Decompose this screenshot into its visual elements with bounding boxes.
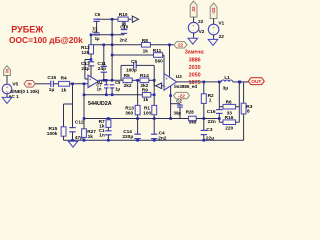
resistor R27: [82, 129, 87, 138]
wire In tag to C15: [35, 83, 51, 85]
source V1: [208, 24, 219, 35]
svg-text:1n: 1n: [97, 86, 102, 91]
svg-text:V5: V5: [12, 82, 18, 88]
ground symbol on rail: [68, 141, 78, 147]
wire R6 left column: [218, 82, 220, 110]
svg-text:360: 360: [125, 110, 133, 116]
svg-text:РУБЕЖ: РУБЕЖ: [11, 24, 44, 34]
wire C15 to R4: [53, 83, 58, 85]
resistor R4: [59, 81, 70, 86]
svg-text:R8: R8: [142, 38, 148, 44]
wire R13 to C14: [137, 115, 139, 134]
node junction R27 bus: [83, 117, 86, 120]
capacitor C10: [121, 29, 127, 31]
wire rail1 top: [97, 18, 132, 20]
svg-text:C10: C10: [120, 25, 129, 30]
source V2: [188, 22, 199, 33]
resistor R1: [152, 105, 157, 114]
wire C1 to rail: [107, 135, 109, 141]
svg-text:22: 22: [198, 19, 204, 25]
svg-text:R14: R14: [140, 73, 149, 79]
wire R27 column: [83, 84, 85, 129]
svg-text:R6: R6: [226, 100, 232, 106]
svg-text:ООС=100 дБ@20k: ООС=100 дБ@20k: [9, 35, 83, 45]
capacitor C13: [88, 61, 94, 63]
wire V2 top: [193, 17, 195, 22]
wire 22 to U2 Vplus pin: [169, 45, 171, 77]
svg-text:C12: C12: [75, 120, 84, 126]
wire C2 to bus: [179, 107, 181, 118]
wire R2 column upper: [203, 82, 205, 94]
node junctions on rail: [71, 139, 74, 142]
svg-text:V1: V1: [218, 21, 224, 27]
svg-text:-22: -22: [211, 7, 216, 14]
svg-text:24p: 24p: [81, 66, 89, 72]
capacitor C3: [201, 129, 207, 131]
resistor R7: [106, 120, 111, 128]
node junction rail2 R12 column: [90, 34, 93, 37]
svg-text:12k: 12k: [81, 50, 89, 56]
wire feedback mid wire: [84, 94, 138, 96]
node junction Vminus tag: [169, 94, 172, 97]
op-amp U1 544UD2A: [88, 75, 98, 87]
svg-text:22: 22: [178, 43, 184, 49]
wire R14 to junction: [149, 79, 154, 81]
svg-text:22n: 22n: [208, 119, 216, 125]
resistor R10 on rail1: [118, 17, 128, 21]
node junction trunk R11 row: [111, 54, 114, 57]
resistor R11: [154, 53, 163, 58]
svg-text:100: 100: [143, 110, 151, 116]
svg-text:8: 8: [247, 108, 250, 114]
wire R27 to rail: [83, 137, 85, 140]
svg-text:C6: C6: [95, 12, 101, 17]
resistor R3: [241, 103, 246, 114]
node In rotated tag above V5: [4, 66, 11, 76]
svg-text:C5: C5: [131, 59, 137, 65]
svg-text:2050: 2050: [189, 72, 201, 78]
wire R7 to C1: [107, 127, 109, 130]
wire R13 column: [137, 80, 139, 105]
wire C3 to rail: [203, 135, 205, 141]
resistor R14: [140, 78, 149, 83]
svg-text:C13: C13: [81, 61, 90, 67]
svg-text:R16: R16: [225, 115, 234, 121]
node junction trunk rail1: [111, 18, 114, 21]
op-amp U2 lm3886: [164, 74, 177, 91]
wire R12 to C13: [90, 54, 92, 62]
wire R3 to rail: [243, 114, 245, 140]
svg-text:1k: 1k: [143, 97, 149, 103]
node junction R7 bus: [107, 117, 110, 120]
tie arrow right: [132, 16, 138, 22]
wire R5 to R14: [132, 79, 140, 81]
wire R6 R16 right column: [238, 82, 240, 122]
wire Vminus column to C2 column: [171, 103, 180, 105]
node junction R9 R1 column: [153, 94, 156, 97]
wire trunk vertical: [111, 19, 113, 80]
wire R4 to U1 input: [70, 83, 88, 85]
svg-text:C9: C9: [115, 80, 121, 85]
resistor R6: [223, 104, 236, 109]
wire R1 column: [153, 80, 155, 105]
wire C14 to rail: [137, 139, 139, 141]
svg-text:2k2: 2k2: [124, 83, 132, 89]
wire mid bus left: [84, 118, 189, 120]
ground below V2: [188, 38, 198, 44]
wire C13 to U1 top: [90, 66, 92, 77]
capacitor C4: [151, 133, 157, 135]
node tag 22 rotated above V2: [190, 1, 197, 17]
node junction C12 column: [71, 83, 74, 86]
resistor R13: [135, 105, 140, 114]
svg-text:1: 1: [209, 98, 212, 104]
node junction rail2 trunk: [111, 34, 114, 37]
wire R12 column from rail2: [90, 35, 92, 45]
svg-text:1µ: 1µ: [95, 36, 100, 41]
svg-text:1k: 1k: [61, 87, 67, 93]
svg-text:2n2: 2n2: [120, 38, 128, 43]
resistor R12: [89, 45, 94, 54]
svg-text:9k8: 9k8: [189, 120, 197, 125]
svg-text:R28: R28: [186, 110, 195, 115]
svg-text:1k: 1k: [143, 48, 149, 54]
capacitor C6: [93, 18, 99, 20]
capacitor C14: [134, 133, 140, 135]
svg-text:1k: 1k: [88, 134, 94, 140]
wire L1 to OUT: [233, 81, 249, 83]
ground below V1: [208, 39, 218, 45]
svg-text:22: 22: [191, 6, 196, 12]
svg-text:2030: 2030: [189, 65, 201, 71]
wire C4 to rail: [153, 139, 155, 141]
wire R6 stubs: [219, 106, 223, 108]
svg-text:100k: 100k: [47, 131, 58, 137]
wire C12 column upper: [72, 84, 74, 128]
svg-text:3886: 3886: [189, 57, 201, 63]
wire R3 column: [243, 82, 245, 103]
svg-text:544UD2A: 544UD2A: [88, 101, 112, 107]
wire supply row R11: [112, 54, 153, 56]
wire junction down stub: [153, 80, 155, 86]
svg-text:lm3886_ed: lm3886_ed: [174, 84, 197, 89]
node junction 22: [168, 44, 171, 47]
capacitor C12: [69, 127, 75, 129]
wire C16 to bus: [218, 113, 220, 122]
wire tie to U2 minus input: [162, 85, 164, 87]
wire V2 bottom: [193, 33, 195, 38]
node junction R3 column: [239, 81, 242, 84]
resistor R28 on bus: [189, 116, 197, 121]
svg-text:220: 220: [225, 125, 233, 131]
node tag -22: [174, 92, 190, 98]
svg-text:R10: R10: [119, 12, 128, 18]
node junction R6 column left: [218, 81, 221, 84]
node junction R2 column: [203, 81, 206, 84]
svg-text:R5: R5: [124, 73, 130, 79]
node junction R27 column: [83, 83, 86, 86]
wire U1 top input feedback stub: [85, 78, 88, 80]
node junction R13 column: [136, 79, 139, 82]
capacitor C1: [105, 130, 111, 132]
svg-text:R4: R4: [61, 76, 67, 82]
source V5 SINE: [2, 84, 12, 94]
wire R11 to U2 plus input: [163, 54, 164, 56]
svg-text:Замена:: Замена:: [185, 49, 205, 55]
svg-text:24p: 24p: [98, 66, 106, 72]
node junction R13 bus: [136, 117, 139, 120]
svg-text:In: In: [27, 82, 31, 88]
wire V1 bottom: [213, 35, 215, 40]
capacitor C8: [93, 32, 99, 34]
resistor R5: [123, 78, 132, 83]
wire ground rail: [64, 139, 244, 141]
node junction feedback comp: [90, 58, 93, 61]
svg-text:220p: 220p: [122, 134, 133, 140]
svg-text:C15: C15: [47, 75, 56, 81]
wire supply row R8: [94, 44, 142, 46]
node junction R2 column bus: [203, 117, 206, 120]
resistor R8: [142, 43, 151, 48]
wire U1 output: [98, 79, 123, 81]
wire C10 to rail2: [123, 33, 125, 34]
wire V1 top: [213, 19, 215, 25]
svg-text:22: 22: [219, 34, 225, 40]
ground below V5: [2, 97, 12, 103]
resistor R16: [223, 120, 236, 125]
node junction R1 bus: [153, 117, 156, 120]
wire R7 column: [107, 119, 109, 120]
wire V5 top: [6, 76, 8, 85]
wire R8 to 22 node: [150, 44, 174, 46]
svg-text:1n: 1n: [99, 133, 105, 139]
wire C12 to rail: [72, 132, 74, 141]
svg-text:OUT: OUT: [251, 79, 261, 85]
svg-text:3µ: 3µ: [223, 85, 229, 91]
tie arrow left: [156, 83, 162, 89]
node tag OUT: [248, 78, 264, 85]
wire U2 output: [177, 81, 222, 83]
wire R1 to C4: [153, 115, 155, 134]
node junction R27 feedback wire: [83, 94, 86, 97]
node junction trunk U1 out wire: [111, 79, 114, 82]
wire V5 bottom: [6, 94, 8, 98]
svg-text:1µ: 1µ: [49, 87, 55, 93]
capacitor C16: [216, 109, 222, 111]
wire C10 column: [123, 21, 125, 29]
wire R2 to C3: [203, 103, 205, 130]
wire R16 stubs: [219, 121, 223, 123]
capacitor C7: [105, 80, 107, 85]
wire R15 to rail: [63, 136, 65, 140]
wire mid bus right: [196, 118, 219, 120]
node tag -22 rotated above V1: [210, 3, 217, 19]
stub to R15: [64, 103, 73, 105]
wire R15 column upper: [63, 104, 65, 127]
svg-text:V2: V2: [199, 29, 205, 35]
svg-text:C16: C16: [207, 109, 216, 115]
svg-text:160p: 160p: [126, 67, 137, 73]
wire U2 Vminus pin down to bus: [170, 86, 172, 118]
wire C11 column top: [103, 45, 105, 67]
svg-text:C2: C2: [176, 99, 182, 104]
node junction trunk R8 row: [111, 44, 114, 47]
wire rail2: [91, 34, 124, 36]
node junction C16 bus: [218, 117, 221, 120]
resistor R15: [61, 127, 66, 136]
wire C8 to rail2: [96, 34, 98, 36]
capacitor C11: [101, 65, 107, 67]
node junction R6 column right: [238, 81, 241, 84]
svg-text:In: In: [5, 68, 10, 72]
svg-text:C3: C3: [206, 127, 212, 133]
node junction Vminus column bus: [169, 117, 172, 120]
svg-text:1µ: 1µ: [115, 86, 120, 91]
svg-text:R11: R11: [153, 48, 162, 54]
capacitor C9: [110, 84, 114, 86]
wire C11 to U1 output wire: [103, 72, 105, 80]
svg-text:R9: R9: [142, 88, 148, 94]
capacitor C5 bridge: [120, 65, 122, 80]
svg-text:U2: U2: [176, 74, 182, 80]
node tag 22: [174, 42, 187, 48]
node In tag at input: [24, 81, 35, 88]
wire C6 to C8: [96, 21, 98, 33]
node junction U2 input node: [153, 79, 156, 82]
svg-text:560: 560: [155, 58, 163, 64]
svg-text:C11: C11: [97, 61, 106, 67]
resistor R9: [138, 94, 143, 96]
capacitor C2: [179, 104, 181, 105]
capacitor C15: [50, 81, 52, 87]
resistor R2: [201, 94, 206, 104]
